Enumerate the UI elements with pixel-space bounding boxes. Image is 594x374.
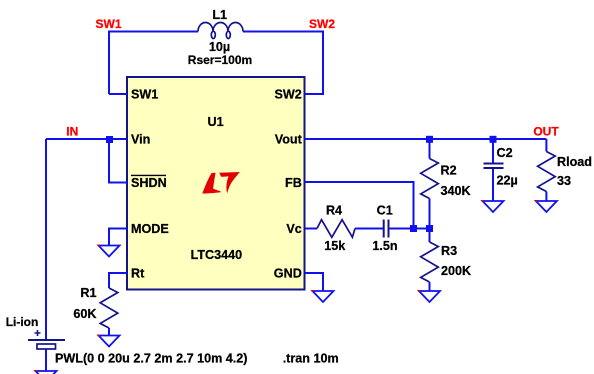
svg-text:IN: IN	[66, 125, 78, 139]
svg-text:Vin: Vin	[131, 133, 150, 147]
svg-text:C2: C2	[497, 146, 513, 160]
svg-text:340K: 340K	[441, 184, 471, 198]
svg-text:Vout: Vout	[275, 133, 303, 147]
svg-text:Rload: Rload	[557, 155, 592, 169]
svg-text:R3: R3	[441, 244, 457, 258]
svg-text:LTC3440: LTC3440	[191, 248, 243, 262]
svg-text:R1: R1	[80, 286, 96, 300]
svg-text:SW2: SW2	[275, 88, 302, 102]
svg-text:Vc: Vc	[286, 222, 301, 236]
svg-text:MODE: MODE	[131, 222, 169, 236]
svg-text:PWL(0 0 20u 2.7 2m 2.7 10m 4.2: PWL(0 0 20u 2.7 2m 2.7 10m 4.2)	[55, 352, 248, 366]
svg-text:OUT: OUT	[533, 125, 559, 139]
svg-text:Li-ion: Li-ion	[6, 315, 39, 329]
svg-text:15k: 15k	[324, 239, 346, 253]
svg-text:Rt: Rt	[131, 267, 145, 281]
svg-text:SHDN: SHDN	[131, 176, 167, 190]
svg-text:10µ: 10µ	[209, 40, 230, 54]
svg-text:C1: C1	[377, 204, 393, 218]
svg-text:R4: R4	[326, 204, 342, 218]
svg-text:Rser=100m: Rser=100m	[188, 53, 252, 67]
svg-text:SW1: SW1	[131, 88, 158, 102]
svg-text:.tran 10m: .tran 10m	[283, 352, 339, 366]
svg-text:FB: FB	[285, 176, 302, 190]
svg-text:22µ: 22µ	[497, 173, 518, 187]
svg-text:200K: 200K	[441, 264, 471, 278]
svg-text:GND: GND	[274, 267, 302, 281]
svg-text:SW1: SW1	[95, 17, 121, 31]
svg-text:SW2: SW2	[309, 17, 335, 31]
svg-text:1.5n: 1.5n	[372, 239, 397, 253]
svg-text:R2: R2	[441, 164, 457, 178]
svg-text:L1: L1	[212, 8, 227, 22]
svg-text:60K: 60K	[73, 307, 96, 321]
svg-text:33: 33	[557, 174, 571, 188]
svg-text:U1: U1	[208, 115, 224, 129]
